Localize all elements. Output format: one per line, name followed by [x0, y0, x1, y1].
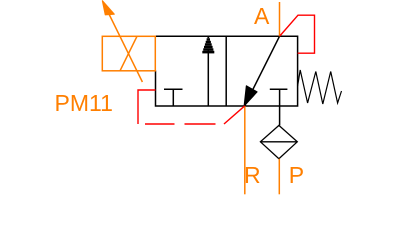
- svg-text:PM11: PM11: [55, 90, 113, 116]
- svg-text:R: R: [244, 162, 261, 188]
- svg-text:A: A: [254, 3, 270, 29]
- svg-text:P: P: [289, 162, 304, 188]
